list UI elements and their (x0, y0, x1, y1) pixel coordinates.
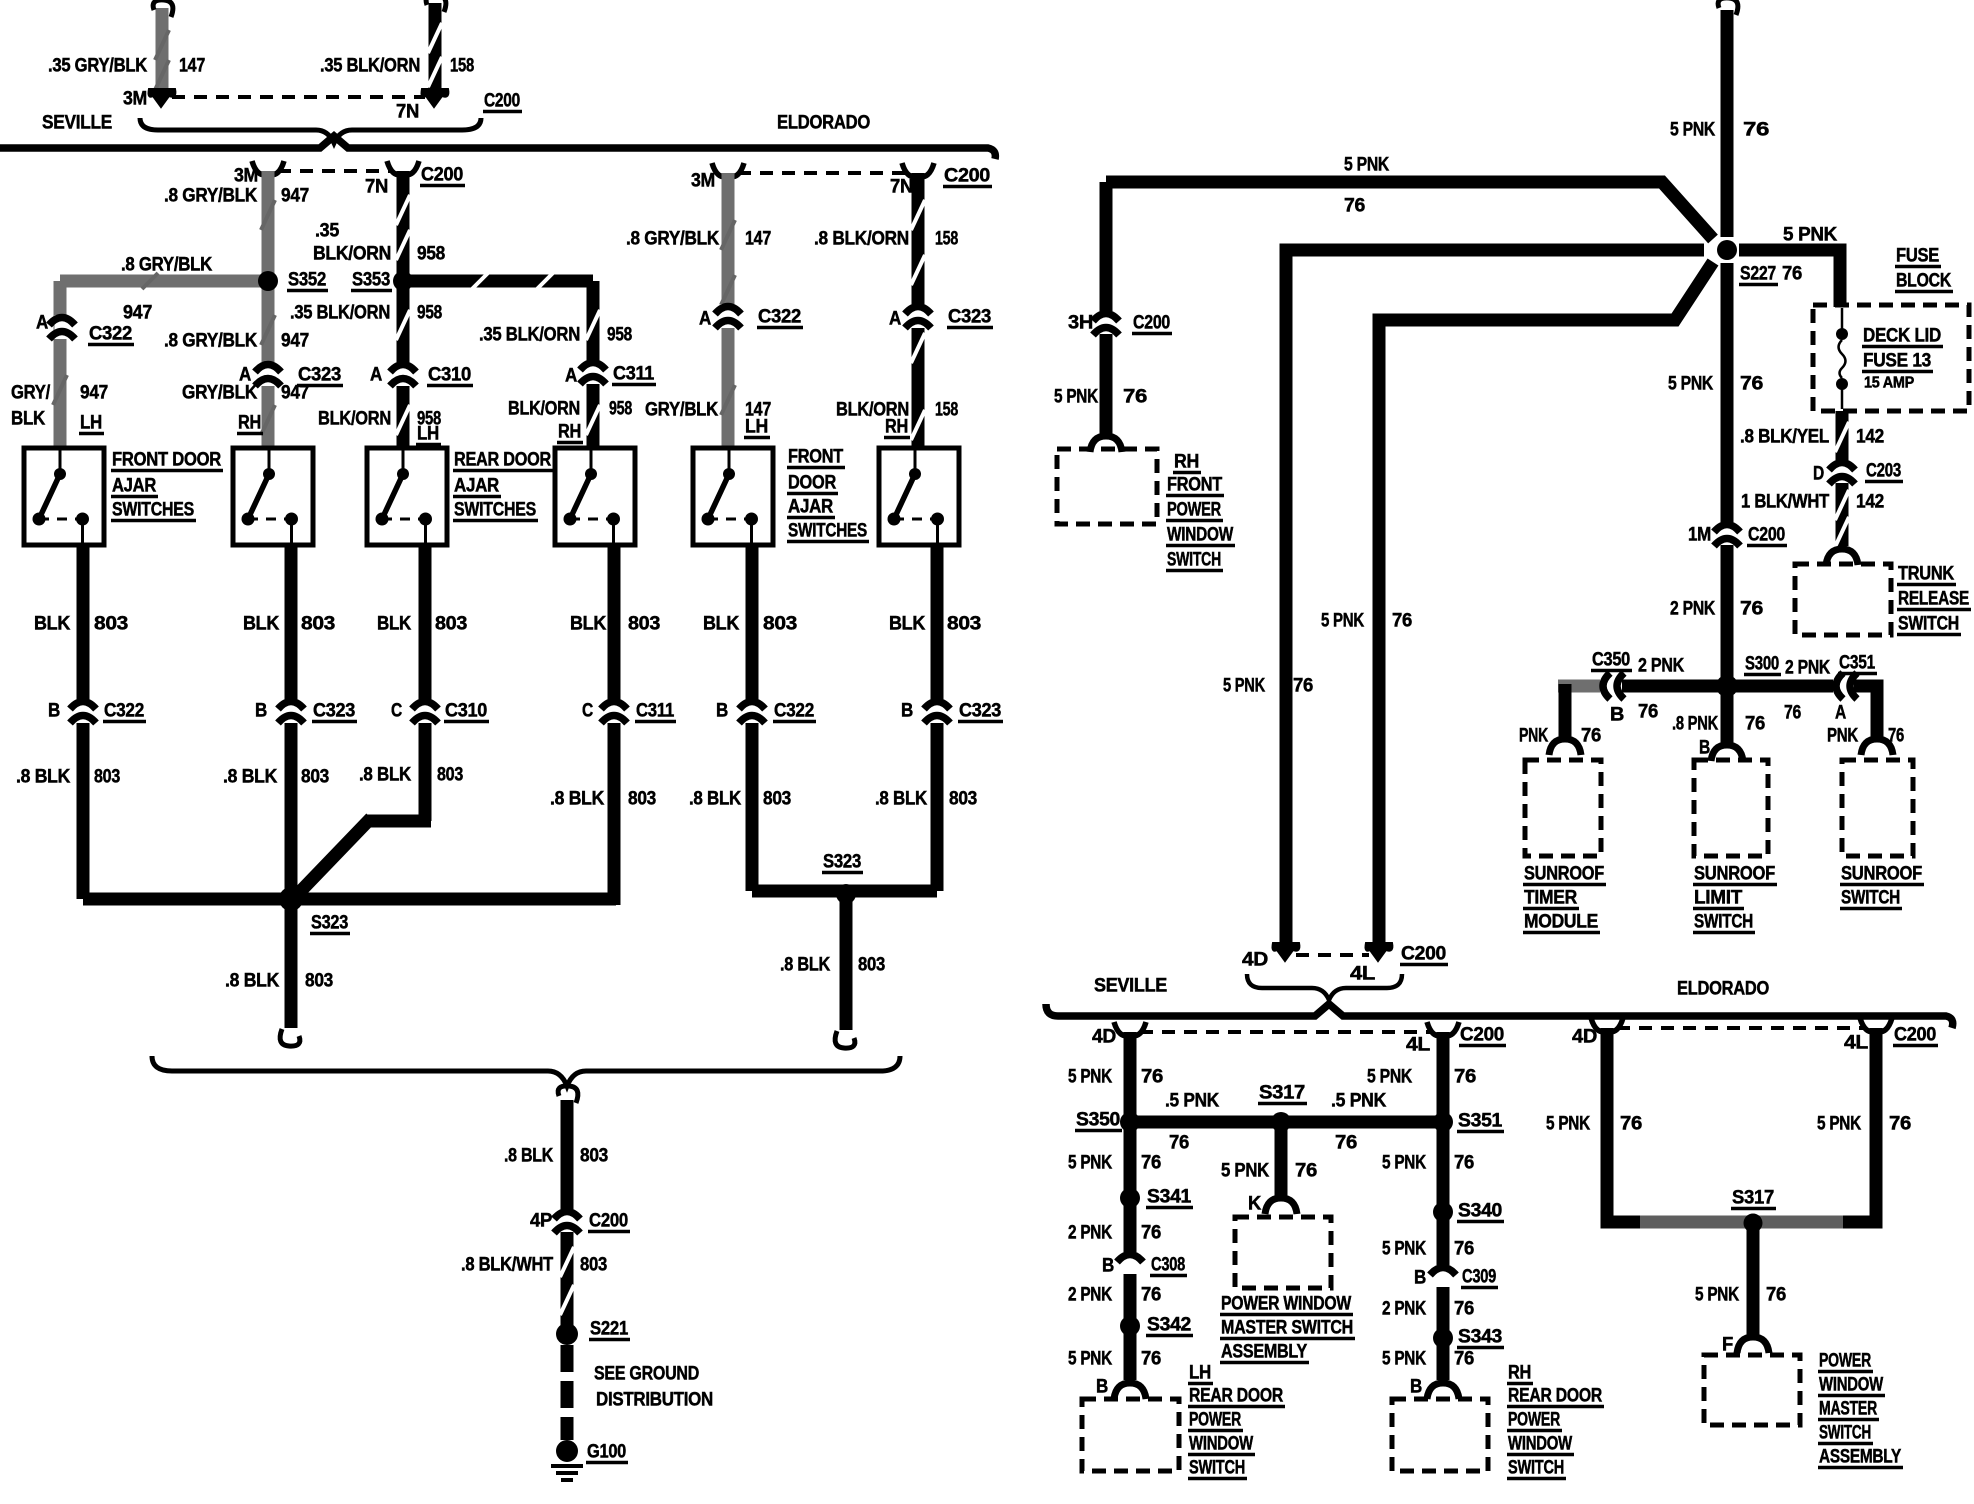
svg-text:AJAR: AJAR (454, 476, 500, 497)
svg-text:76: 76 (1766, 1285, 1786, 1306)
svg-text:76: 76 (1620, 1114, 1642, 1135)
svg-text:958: 958 (417, 244, 445, 265)
svg-text:.8 BLK/ORN: .8 BLK/ORN (814, 229, 909, 250)
svg-text:5 PNK: 5 PNK (1054, 387, 1098, 408)
svg-text:REAR DOOR: REAR DOOR (1508, 1386, 1602, 1407)
svg-text:B: B (901, 701, 913, 722)
svg-text:RH: RH (885, 417, 908, 438)
svg-text:S353: S353 (352, 270, 390, 291)
svg-text:RH: RH (1174, 452, 1199, 473)
svg-text:5 PNK: 5 PNK (1668, 374, 1713, 395)
svg-text:RELEASE: RELEASE (1898, 589, 1969, 610)
svg-text:C311: C311 (613, 364, 655, 385)
svg-text:.8 BLK: .8 BLK (875, 789, 928, 810)
svg-text:803: 803 (628, 614, 660, 635)
svg-text:.5 PNK: .5 PNK (1331, 1091, 1387, 1112)
svg-text:LH: LH (1189, 1363, 1211, 1384)
svg-text:C203: C203 (1866, 461, 1901, 482)
svg-text:.8 BLK: .8 BLK (689, 789, 742, 810)
svg-text:S317: S317 (1732, 1188, 1774, 1209)
svg-text:S300: S300 (1745, 654, 1779, 675)
svg-text:PNK: PNK (1519, 726, 1548, 747)
svg-text:ASSEMBLY: ASSEMBLY (1221, 1342, 1308, 1363)
svg-text:4L: 4L (1350, 964, 1376, 985)
svg-text:RH: RH (238, 413, 261, 434)
svg-text:SEVILLE: SEVILLE (1094, 976, 1167, 997)
svg-text:.35 BLK/ORN: .35 BLK/ORN (320, 56, 420, 77)
svg-text:LIMIT: LIMIT (1694, 888, 1743, 909)
svg-text:76: 76 (1295, 1161, 1317, 1182)
svg-text:76: 76 (1141, 1153, 1161, 1174)
svg-text:C: C (391, 701, 402, 722)
svg-text:GRY/BLK: GRY/BLK (645, 400, 719, 421)
svg-text:7N: 7N (890, 177, 913, 198)
svg-text:803: 803 (763, 614, 797, 635)
svg-text:SUNROOF: SUNROOF (1694, 864, 1775, 885)
svg-text:BLK: BLK (243, 614, 280, 635)
svg-text:C200: C200 (1401, 944, 1446, 965)
svg-text:B: B (48, 701, 60, 722)
svg-text:5 PNK: 5 PNK (1817, 1114, 1861, 1135)
svg-text:76: 76 (1740, 599, 1763, 620)
svg-text:B: B (716, 701, 728, 722)
svg-text:803: 803 (580, 1255, 607, 1276)
svg-text:MODULE: MODULE (1524, 912, 1598, 933)
svg-text:BLK: BLK (34, 614, 71, 635)
svg-text:803: 803 (94, 767, 120, 788)
svg-text:803: 803 (763, 789, 791, 810)
svg-text:2 PNK: 2 PNK (1638, 656, 1684, 677)
svg-text:BLK/ORN: BLK/ORN (313, 244, 391, 265)
svg-text:BLK/ORN: BLK/ORN (508, 399, 580, 420)
svg-text:76: 76 (1784, 703, 1801, 724)
svg-text:C310: C310 (445, 701, 487, 722)
svg-text:76: 76 (1888, 726, 1904, 747)
svg-text:2 PNK: 2 PNK (1785, 658, 1830, 679)
svg-text:WINDOW: WINDOW (1189, 1434, 1253, 1455)
svg-text:5 PNK: 5 PNK (1068, 1349, 1112, 1370)
svg-text:C323: C323 (948, 307, 991, 328)
svg-text:5 PNK: 5 PNK (1321, 611, 1364, 632)
svg-text:SWITCH: SWITCH (1508, 1458, 1564, 1479)
svg-text:SUNROOF: SUNROOF (1524, 864, 1604, 885)
svg-text:MASTER: MASTER (1819, 1399, 1877, 1420)
svg-text:5 PNK: 5 PNK (1382, 1349, 1426, 1370)
svg-text:.8 GRY/BLK: .8 GRY/BLK (626, 229, 720, 250)
svg-text:C200: C200 (1133, 313, 1170, 334)
svg-text:FUSE: FUSE (1896, 246, 1939, 267)
svg-text:WINDOW: WINDOW (1167, 525, 1233, 546)
svg-text:BLK: BLK (889, 614, 926, 635)
svg-text:DISTRIBUTION: DISTRIBUTION (596, 1390, 713, 1411)
svg-text:.8 PNK: .8 PNK (1672, 714, 1718, 735)
svg-text:POWER: POWER (1508, 1410, 1560, 1431)
svg-text:C200: C200 (944, 166, 990, 187)
svg-text:SEVILLE: SEVILLE (42, 113, 112, 134)
svg-text:S340: S340 (1458, 1201, 1502, 1222)
svg-text:C322: C322 (758, 307, 801, 328)
svg-text:5 PNK: 5 PNK (1695, 1285, 1739, 1306)
svg-text:803: 803 (628, 789, 656, 810)
svg-text:C323: C323 (313, 701, 355, 722)
svg-text:5 PNK: 5 PNK (1382, 1239, 1426, 1260)
svg-text:C: C (582, 701, 593, 722)
svg-text:A: A (889, 309, 902, 330)
svg-text:C311: C311 (636, 701, 675, 722)
svg-text:803: 803 (301, 767, 329, 788)
svg-text:SWITCH: SWITCH (1819, 1423, 1871, 1444)
svg-text:76: 76 (1141, 1067, 1163, 1088)
svg-text:15 AMP: 15 AMP (1864, 375, 1915, 392)
svg-text:.8 BLK: .8 BLK (225, 971, 280, 992)
svg-text:803: 803 (94, 614, 128, 635)
svg-text:A: A (565, 366, 578, 387)
svg-text:C350: C350 (1592, 650, 1630, 671)
svg-text:3H: 3H (1068, 313, 1093, 334)
svg-text:SWITCH: SWITCH (1841, 888, 1900, 909)
svg-text:PNK: PNK (1827, 726, 1858, 747)
svg-text:AJAR: AJAR (788, 497, 834, 518)
svg-text:76: 76 (1344, 196, 1365, 217)
svg-text:F: F (1722, 1335, 1733, 1356)
svg-text:5 PNK: 5 PNK (1068, 1153, 1112, 1174)
svg-text:SWITCH: SWITCH (1189, 1458, 1245, 1479)
svg-text:.8 BLK: .8 BLK (780, 955, 830, 976)
svg-text:4L: 4L (1406, 1035, 1431, 1056)
svg-text:76: 76 (1638, 702, 1658, 723)
svg-text:WINDOW: WINDOW (1819, 1375, 1883, 1396)
svg-text:958: 958 (609, 399, 632, 420)
svg-text:.8 BLK/YEL: .8 BLK/YEL (1740, 427, 1830, 448)
svg-text:SWITCHES: SWITCHES (454, 500, 536, 521)
svg-text:SWITCH: SWITCH (1694, 912, 1753, 933)
svg-text:5 PNK: 5 PNK (1783, 225, 1838, 246)
svg-text:REAR DOOR: REAR DOOR (454, 450, 551, 471)
svg-text:S227: S227 (1740, 264, 1776, 285)
svg-text:LH: LH (745, 417, 768, 438)
svg-text:4D: 4D (1092, 1027, 1116, 1048)
svg-text:142: 142 (1856, 427, 1884, 448)
svg-text:REAR DOOR: REAR DOOR (1189, 1386, 1283, 1407)
svg-text:C322: C322 (104, 701, 144, 722)
svg-text:ELDORADO: ELDORADO (777, 113, 870, 134)
svg-text:.35 BLK/ORN: .35 BLK/ORN (290, 303, 390, 324)
svg-text:947: 947 (281, 186, 309, 207)
svg-text:803: 803 (435, 614, 467, 635)
svg-text:958: 958 (607, 325, 632, 346)
svg-text:3M: 3M (234, 166, 258, 187)
svg-text:3M: 3M (123, 89, 147, 110)
svg-text:ASSEMBLY: ASSEMBLY (1819, 1447, 1901, 1468)
svg-text:76: 76 (1141, 1349, 1161, 1370)
svg-text:POWER WINDOW: POWER WINDOW (1221, 1294, 1351, 1315)
svg-text:S342: S342 (1147, 1315, 1191, 1336)
svg-text:C200: C200 (1894, 1025, 1936, 1046)
svg-text:C200: C200 (484, 91, 520, 112)
svg-text:B: B (1102, 1256, 1114, 1277)
svg-text:LH: LH (417, 424, 439, 445)
svg-text:803: 803 (858, 955, 885, 976)
svg-text:D: D (1813, 464, 1824, 485)
svg-text:76: 76 (1743, 120, 1769, 141)
svg-text:947: 947 (80, 383, 108, 404)
svg-text:2 PNK: 2 PNK (1068, 1285, 1112, 1306)
svg-text:.35 GRY/BLK: .35 GRY/BLK (48, 56, 148, 77)
svg-text:958: 958 (417, 303, 442, 324)
svg-text:S221: S221 (590, 1319, 629, 1340)
svg-text:.8 GRY/BLK: .8 GRY/BLK (121, 255, 213, 276)
svg-text:.35 BLK/ORN: .35 BLK/ORN (479, 325, 580, 346)
svg-text:S341: S341 (1147, 1187, 1192, 1208)
svg-text:.35: .35 (315, 221, 340, 242)
svg-text:7N: 7N (365, 177, 388, 198)
svg-text:BLOCK: BLOCK (1896, 271, 1951, 292)
svg-text:76: 76 (1454, 1067, 1476, 1088)
svg-text:S323: S323 (311, 913, 348, 934)
svg-text:76: 76 (1740, 374, 1763, 395)
svg-text:947: 947 (281, 383, 309, 404)
svg-text:.8 BLK: .8 BLK (359, 765, 412, 786)
svg-text:B: B (1410, 1377, 1422, 1398)
svg-text:B: B (1414, 1268, 1426, 1289)
svg-text:C310: C310 (428, 365, 471, 386)
svg-text:.8 BLK: .8 BLK (550, 789, 605, 810)
svg-text:S317: S317 (1259, 1083, 1305, 1104)
svg-text:AJAR: AJAR (112, 476, 157, 497)
svg-text:BLK/ORN: BLK/ORN (318, 409, 391, 430)
svg-text:SUNROOF: SUNROOF (1841, 864, 1922, 885)
svg-text:947: 947 (281, 331, 309, 352)
svg-text:803: 803 (947, 614, 981, 635)
svg-text:803: 803 (301, 614, 335, 635)
svg-text:LH: LH (80, 413, 102, 434)
svg-text:B: B (1699, 738, 1710, 759)
svg-text:POWER: POWER (1167, 500, 1221, 521)
svg-text:G100: G100 (587, 1442, 626, 1463)
svg-text:.8 BLK/WHT: .8 BLK/WHT (461, 1255, 554, 1276)
svg-text:803: 803 (580, 1146, 608, 1167)
svg-text:BLK: BLK (570, 614, 607, 635)
svg-text:5 PNK: 5 PNK (1068, 1067, 1112, 1088)
svg-text:FRONT: FRONT (1167, 475, 1223, 496)
svg-text:BLK: BLK (11, 409, 46, 430)
svg-text:C309: C309 (1462, 1267, 1496, 1288)
svg-text:C322: C322 (774, 701, 814, 722)
svg-text:142: 142 (1856, 492, 1884, 513)
svg-text:SWITCHES: SWITCHES (788, 521, 867, 542)
svg-text:.8 BLK: .8 BLK (504, 1146, 553, 1167)
svg-text:B: B (255, 701, 267, 722)
svg-text:A: A (370, 365, 383, 386)
svg-text:POWER: POWER (1189, 1410, 1241, 1431)
svg-text:TIMER: TIMER (1524, 888, 1578, 909)
svg-text:158: 158 (935, 400, 958, 421)
svg-text:GRY/: GRY/ (11, 383, 51, 404)
svg-text:158: 158 (450, 56, 474, 77)
svg-text:C308: C308 (1151, 1255, 1185, 1276)
svg-text:5 PNK: 5 PNK (1382, 1153, 1426, 1174)
svg-text:5 PNK: 5 PNK (1670, 120, 1715, 141)
svg-text:C200: C200 (1460, 1025, 1504, 1046)
svg-text:147: 147 (745, 229, 771, 250)
svg-text:4D: 4D (1572, 1027, 1597, 1048)
svg-text:5 PNK: 5 PNK (1344, 155, 1389, 176)
svg-text:76: 76 (1141, 1285, 1161, 1306)
svg-text:K: K (1248, 1194, 1262, 1215)
svg-text:S343: S343 (1458, 1327, 1502, 1348)
svg-text:76: 76 (1392, 611, 1412, 632)
svg-text:2 PNK: 2 PNK (1670, 599, 1715, 620)
svg-text:803: 803 (437, 765, 463, 786)
svg-text:C200: C200 (421, 165, 463, 186)
svg-text:76: 76 (1745, 714, 1765, 735)
svg-text:76: 76 (1335, 1133, 1357, 1154)
svg-text:4P: 4P (530, 1211, 553, 1232)
svg-text:C322: C322 (89, 324, 132, 345)
svg-text:4D: 4D (1242, 950, 1268, 971)
svg-text:76: 76 (1782, 264, 1802, 285)
svg-text:.8 BLK: .8 BLK (16, 767, 71, 788)
svg-text:5 PNK: 5 PNK (1221, 1161, 1270, 1182)
svg-text:S350: S350 (1076, 1110, 1120, 1131)
svg-text:3M: 3M (691, 171, 715, 192)
svg-text:.8 BLK: .8 BLK (223, 767, 278, 788)
svg-text:76: 76 (1454, 1349, 1474, 1370)
svg-text:MASTER SWITCH: MASTER SWITCH (1221, 1318, 1353, 1339)
svg-text:1M: 1M (1688, 525, 1711, 546)
svg-text:803: 803 (949, 789, 977, 810)
svg-text:76: 76 (1581, 726, 1601, 747)
svg-text:803: 803 (305, 971, 333, 992)
svg-text:2 PNK: 2 PNK (1382, 1299, 1426, 1320)
svg-text:76: 76 (1169, 1133, 1189, 1154)
svg-text:FRONT: FRONT (788, 447, 844, 468)
svg-text:SWITCH: SWITCH (1167, 550, 1221, 571)
svg-text:DECK LID: DECK LID (1863, 326, 1941, 347)
svg-text:76: 76 (1454, 1153, 1474, 1174)
svg-text:RH: RH (1508, 1363, 1531, 1384)
svg-text:SWITCHES: SWITCHES (112, 500, 194, 521)
svg-text:A: A (1835, 703, 1846, 724)
svg-text:76: 76 (1141, 1223, 1161, 1244)
svg-text:S352: S352 (288, 270, 326, 291)
svg-text:.5 PNK: .5 PNK (1165, 1091, 1220, 1112)
svg-text:5 PNK: 5 PNK (1546, 1114, 1590, 1135)
svg-text:A: A (699, 309, 712, 330)
svg-text:C351: C351 (1839, 653, 1876, 674)
svg-text:76: 76 (1889, 1114, 1911, 1135)
svg-text:76: 76 (1293, 676, 1313, 697)
svg-text:BLK: BLK (703, 614, 740, 635)
svg-text:RH: RH (558, 422, 581, 443)
svg-text:C323: C323 (959, 701, 1001, 722)
svg-text:C200: C200 (1748, 525, 1785, 546)
svg-text:7N: 7N (396, 102, 419, 123)
svg-text:.8 GRY/BLK: .8 GRY/BLK (164, 186, 258, 207)
svg-text:147: 147 (179, 56, 205, 77)
svg-text:FRONT DOOR: FRONT DOOR (112, 450, 221, 471)
svg-text:2 PNK: 2 PNK (1068, 1223, 1112, 1244)
svg-text:ELDORADO: ELDORADO (1677, 979, 1769, 1000)
svg-text:S323: S323 (823, 852, 861, 873)
svg-text:1 BLK/WHT: 1 BLK/WHT (1741, 492, 1830, 513)
svg-text:POWER: POWER (1819, 1351, 1871, 1372)
svg-text:76: 76 (1454, 1299, 1474, 1320)
svg-text:76: 76 (1123, 387, 1147, 408)
svg-text:SWITCH: SWITCH (1898, 614, 1959, 635)
svg-text:5 PNK: 5 PNK (1367, 1067, 1412, 1088)
svg-text:TRUNK: TRUNK (1898, 564, 1954, 585)
svg-text:BLK: BLK (377, 614, 412, 635)
svg-text:FUSE 13: FUSE 13 (1863, 351, 1931, 372)
svg-text:SEE GROUND: SEE GROUND (594, 1364, 699, 1385)
svg-text:4L: 4L (1844, 1033, 1869, 1054)
svg-text:GRY/BLK: GRY/BLK (182, 383, 258, 404)
svg-text:.8 GRY/BLK: .8 GRY/BLK (164, 331, 258, 352)
svg-text:S351: S351 (1458, 1111, 1503, 1132)
svg-text:DOOR: DOOR (788, 473, 836, 494)
svg-text:158: 158 (935, 229, 958, 250)
svg-text:A: A (36, 313, 49, 334)
svg-text:WINDOW: WINDOW (1508, 1434, 1572, 1455)
svg-text:947: 947 (123, 303, 152, 324)
svg-text:5 PNK: 5 PNK (1223, 676, 1265, 697)
svg-text:C200: C200 (589, 1211, 628, 1232)
svg-text:B: B (1610, 705, 1624, 726)
svg-text:B: B (1096, 1377, 1108, 1398)
svg-text:76: 76 (1454, 1239, 1474, 1260)
